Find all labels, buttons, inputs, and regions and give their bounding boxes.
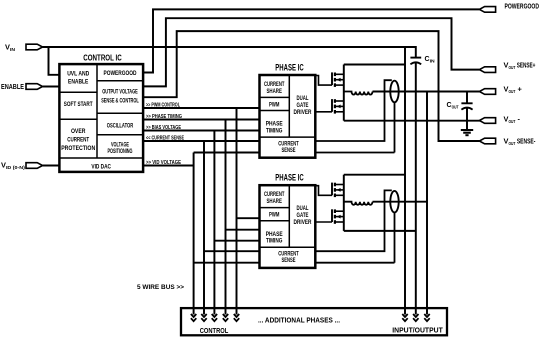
svg-text:INPUT/OUTPUT: INPUT/OUTPUT bbox=[392, 328, 443, 335]
svg-text:>> PHASE TIMING: >> PHASE TIMING bbox=[146, 114, 182, 120]
svg-text:CURRENT: CURRENT bbox=[264, 81, 285, 88]
svg-text:PHASE IC: PHASE IC bbox=[275, 173, 304, 183]
svg-text:POSITIONING: POSITIONING bbox=[108, 148, 133, 155]
svg-text:>> BIAS VOLTAGE: >> BIAS VOLTAGE bbox=[146, 125, 181, 131]
svg-text:PROTECTION: PROTECTION bbox=[61, 145, 95, 152]
svg-text:TIMING: TIMING bbox=[266, 238, 283, 245]
svg-text:TIMING: TIMING bbox=[266, 128, 283, 135]
svg-text:OVER: OVER bbox=[71, 128, 86, 135]
svg-text:VOUT SENSE-: VOUT SENSE- bbox=[504, 137, 536, 147]
svg-text:UVL AND: UVL AND bbox=[67, 70, 89, 77]
svg-text:SENSE: SENSE bbox=[281, 147, 295, 154]
svg-text:>> PWM CONTROL: >> PWM CONTROL bbox=[146, 103, 180, 109]
svg-text:DUAL: DUAL bbox=[297, 205, 309, 212]
svg-text:GATE: GATE bbox=[297, 212, 309, 219]
svg-text:DRIVER: DRIVER bbox=[294, 109, 312, 116]
svg-text:CONTROL IC: CONTROL IC bbox=[83, 54, 122, 63]
svg-text:POWERGOOD: POWERGOOD bbox=[104, 70, 137, 77]
svg-text:ENABLE: ENABLE bbox=[68, 79, 88, 86]
svg-text:CURRENT: CURRENT bbox=[67, 136, 89, 143]
svg-text:5 WIRE BUS >>: 5 WIRE BUS >> bbox=[137, 284, 184, 291]
svg-text:VOUT SENSE+: VOUT SENSE+ bbox=[504, 60, 536, 70]
svg-text:SOFT START: SOFT START bbox=[64, 101, 93, 108]
svg-text:OSCILLATOR: OSCILLATOR bbox=[107, 123, 134, 130]
svg-text:SENSE: SENSE bbox=[281, 257, 295, 264]
svg-text:<< CURRENT SENSE: << CURRENT SENSE bbox=[146, 136, 184, 142]
svg-text:PWM: PWM bbox=[269, 212, 279, 219]
svg-text:PHASE IC: PHASE IC bbox=[275, 62, 304, 72]
svg-text:SHARE: SHARE bbox=[267, 88, 282, 95]
svg-text:SENSE & CONTROL: SENSE & CONTROL bbox=[101, 97, 139, 104]
svg-text:CONTROL: CONTROL bbox=[200, 328, 229, 335]
svg-text:GATE: GATE bbox=[297, 102, 309, 109]
svg-text:CURRENT: CURRENT bbox=[264, 191, 285, 198]
svg-text:DUAL: DUAL bbox=[297, 95, 309, 102]
svg-text:... ADDITIONAL PHASES ...: ... ADDITIONAL PHASES ... bbox=[258, 318, 340, 325]
svg-text:PWM: PWM bbox=[269, 101, 279, 108]
svg-text:VID DAC: VID DAC bbox=[91, 164, 111, 171]
svg-text:DRIVER: DRIVER bbox=[294, 219, 312, 226]
svg-text:>> VID VOLTAGE: >> VID VOLTAGE bbox=[146, 160, 181, 166]
svg-text:SHARE: SHARE bbox=[267, 198, 282, 205]
svg-text:ENABLE: ENABLE bbox=[1, 82, 24, 91]
svg-text:OUTPUT VOLTAGE: OUTPUT VOLTAGE bbox=[102, 88, 138, 95]
svg-text:POWERGOOD: POWERGOOD bbox=[505, 2, 540, 11]
